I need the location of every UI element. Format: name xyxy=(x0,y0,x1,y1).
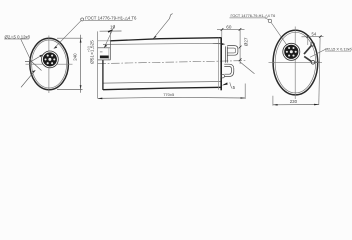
left view vertical centerline xyxy=(48,36,50,94)
left annotation underline shelf xyxy=(4,38,29,40)
svg-text:+0,5: +0,5 xyxy=(86,46,90,52)
upper bracket stub xyxy=(304,46,311,55)
left annotation leader xyxy=(21,39,32,61)
left leader arrow to boss xyxy=(31,55,43,62)
right weld annotation underline xyxy=(325,51,351,53)
svg-text:ГОСТ 14776-79-Н1-△4 Т6: ГОСТ 14776-79-Н1-△4 Т6 xyxy=(85,16,137,21)
svg-text:Ø2△5 Х 0,12кб: Ø2△5 Х 0,12кб xyxy=(325,47,352,52)
lower bracket stub xyxy=(304,56,311,61)
left cap small dash xyxy=(100,51,103,53)
svg-text:230: 230 xyxy=(290,99,298,104)
dimension 770 line xyxy=(98,97,246,98)
dimension 770 right extension xyxy=(244,84,246,99)
dimension 230 line xyxy=(273,104,319,106)
hook bracket rod end circle xyxy=(221,74,225,78)
left cap box mid line xyxy=(98,47,111,49)
dimension diam 27 slash marks xyxy=(239,46,242,49)
dimension 54 left extension xyxy=(307,37,309,45)
lower bracket rod horizontal xyxy=(315,61,320,63)
svg-text:Ø2△5 0,12кб: Ø2△5 0,12кб xyxy=(5,34,31,39)
right view horizontal centerline xyxy=(269,62,323,64)
left view outer oval (casing end) xyxy=(30,38,69,89)
right view outlet pipe boss (hatched disc) xyxy=(283,43,300,60)
dimension 60 left extension xyxy=(221,30,223,38)
outlet tube (P-shape) staff xyxy=(224,46,226,62)
svg-text:ГОСТ 14776-79-Н1-△4 Т6: ГОСТ 14776-79-Н1-△4 Т6 xyxy=(231,14,276,18)
balloon circle (right) xyxy=(268,19,271,22)
dimension 54 line xyxy=(302,36,324,38)
left cap box bottom line xyxy=(98,59,111,61)
right view inner oval xyxy=(275,32,316,93)
hook bracket (lower) inner xyxy=(224,67,231,75)
dimension 60 line xyxy=(217,28,245,30)
dimension 240 line xyxy=(80,35,82,93)
casing right cap seam (thin) xyxy=(218,38,220,90)
left leader arrow to shell xyxy=(31,61,41,70)
outlet tube bowl inner xyxy=(227,48,235,53)
casing bottom inner line (thin) xyxy=(103,82,221,84)
left cap box right edge xyxy=(109,41,111,60)
shelf link to balloon xyxy=(265,18,269,20)
casing top inner line (thin) xyxy=(103,43,221,44)
dimension 60 / pipe end extension xyxy=(239,30,241,65)
left cap box top line xyxy=(98,40,111,42)
left view inlet pipe boss (hatched disc) xyxy=(42,51,59,68)
weld arrow at right cap xyxy=(213,43,223,45)
casing bottom outer line (heavy) xyxy=(103,87,222,89)
weld spec underline shelf (right) xyxy=(230,17,266,19)
svg-text:25: 25 xyxy=(89,40,95,46)
dimension 240 top extension xyxy=(57,37,83,39)
main view long extension line at left (x=97.6) xyxy=(97,31,99,98)
weld spec underline shelf (left) xyxy=(84,20,132,22)
outlet tube bowl outer xyxy=(227,46,238,56)
weld leader from balloon to left view boss xyxy=(54,21,81,49)
bottom-left leader arrow xyxy=(21,70,35,87)
left view inner oval xyxy=(32,40,67,88)
left cap weld bar (dark) xyxy=(100,56,109,59)
right weld annotation leader xyxy=(310,49,326,57)
weld mark at cap bottom xyxy=(222,82,228,85)
dimension 230 left extension xyxy=(272,96,274,106)
left view horizontal centerline xyxy=(26,63,73,65)
svg-text:60: 60 xyxy=(226,25,232,30)
dimension 54 slash ticks xyxy=(307,35,310,38)
dimension 240 bottom extension xyxy=(57,89,83,91)
diagonal leader bottom right of main view xyxy=(240,62,255,74)
svg-text:240: 240 xyxy=(73,53,78,61)
dimension 19 line xyxy=(100,30,122,32)
svg-text:Ø27: Ø27 xyxy=(244,37,249,46)
svg-text:54: 54 xyxy=(312,32,317,37)
casing axis centerline xyxy=(98,61,247,64)
dimension 19 arrow mark xyxy=(108,30,113,32)
left cap box inner right edge xyxy=(108,48,110,60)
dimension 54 right extension / 230 right extension xyxy=(319,37,320,105)
leader from 19 text to cap corner xyxy=(104,25,115,48)
dimension 19 right extension xyxy=(109,31,111,40)
weld spec shelf (left) balloon circle xyxy=(81,18,84,21)
dimension 60 slash ticks xyxy=(221,28,224,31)
casing right edge (heavy) xyxy=(220,38,222,91)
casing top outer line (heavy) xyxy=(111,38,222,41)
casing left edge (heavy) xyxy=(102,60,104,90)
svg-text:770±5: 770±5 xyxy=(163,92,175,97)
right view vertical centerline xyxy=(294,27,296,100)
leader from balloon to right view boss xyxy=(271,22,287,45)
left leader tick xyxy=(25,60,31,62)
right view outer oval xyxy=(273,30,318,95)
weld number 5 leader xyxy=(230,82,232,88)
weld number 1 leader xyxy=(153,19,169,39)
hook bracket (lower) outer xyxy=(224,64,234,76)
